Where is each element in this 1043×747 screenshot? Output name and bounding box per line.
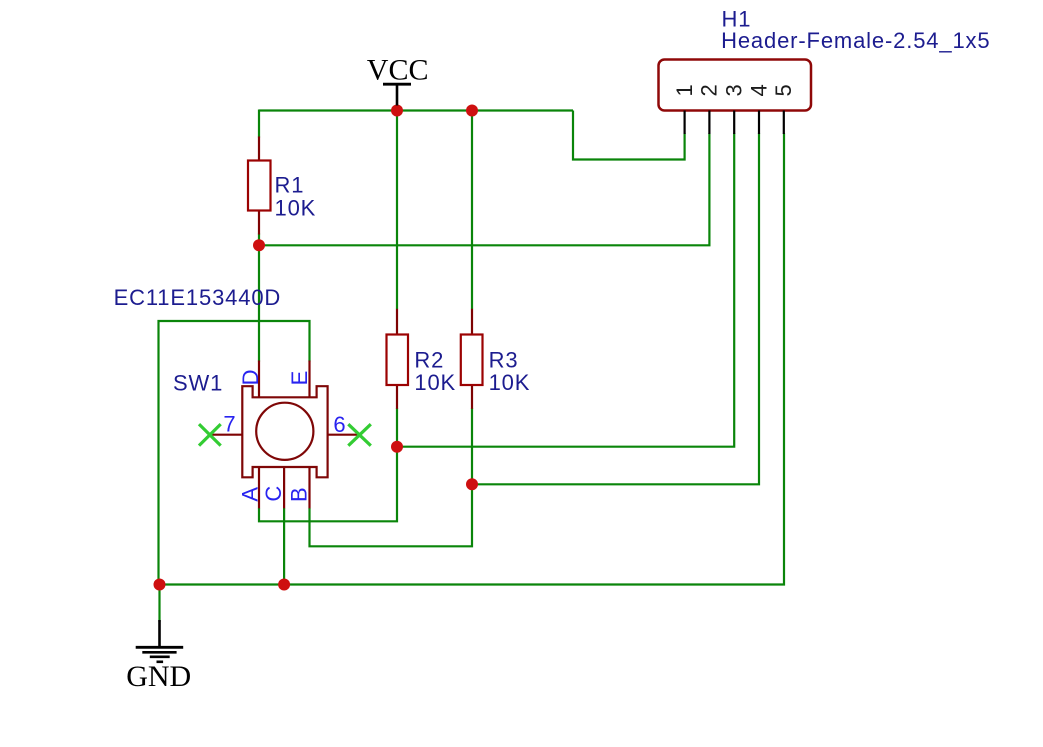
rotary encoder SW1 body <box>242 386 327 477</box>
svg-text:4: 4 <box>746 84 771 96</box>
svg-text:10K: 10K <box>489 370 531 395</box>
svg-text:R3: R3 <box>489 348 519 373</box>
power flag VCC <box>383 84 411 105</box>
junction R3 bottom node <box>466 478 478 490</box>
svg-text:1: 1 <box>672 84 697 96</box>
svg-text:D: D <box>238 370 263 386</box>
wire pin2 to R1 bottom <box>259 133 709 245</box>
wire R1 top <box>258 110 260 138</box>
no-connect X pin 7 <box>199 424 221 446</box>
ground GND <box>136 620 184 662</box>
pin A <box>258 468 260 509</box>
svg-text:3: 3 <box>722 84 747 96</box>
pin 5 stub <box>783 111 785 135</box>
resistor R2 <box>387 309 409 409</box>
svg-text:GND: GND <box>126 660 191 693</box>
resistor R3 <box>461 309 483 409</box>
wire R3 top <box>471 111 473 310</box>
junction VCC-R3 <box>466 105 478 117</box>
wire VCC rail <box>259 109 573 111</box>
encoder shaft circle <box>256 403 313 460</box>
no-connect X pin 6 <box>348 424 371 446</box>
svg-text:R1: R1 <box>275 173 305 198</box>
svg-text:B: B <box>286 487 311 502</box>
junction VCC-R2 <box>391 105 403 117</box>
svg-text:VCC: VCC <box>367 53 429 86</box>
pin B <box>308 468 310 509</box>
connector H1 body <box>659 60 812 111</box>
svg-text:6: 6 <box>333 412 345 437</box>
wire R3 bottom to pin 4 <box>472 133 759 484</box>
svg-text:A: A <box>237 487 262 502</box>
pin 7 <box>211 434 243 436</box>
wire pin E loop to GND <box>159 321 310 585</box>
svg-text:SW1: SW1 <box>173 370 223 395</box>
wire R2 bottom to pin 3 <box>397 133 734 447</box>
wire pin1 net <box>573 111 685 160</box>
wire R1 bottom to pin D <box>258 234 260 362</box>
pin C <box>283 468 285 509</box>
svg-text:Header-Female-2.54_1x5: Header-Female-2.54_1x5 <box>721 28 990 53</box>
svg-text:R2: R2 <box>414 348 444 373</box>
wire pin B net <box>310 484 473 546</box>
svg-text:EC11E153440D: EC11E153440D <box>114 285 282 310</box>
junction R2 bottom node <box>391 441 403 453</box>
svg-text:10K: 10K <box>275 195 317 220</box>
wire GND rail to pin 5 <box>160 133 785 584</box>
svg-text:7: 7 <box>223 411 235 436</box>
pin 2 stub <box>708 111 710 135</box>
pin E <box>308 361 310 397</box>
svg-text:C: C <box>261 486 286 502</box>
pin D <box>258 361 260 397</box>
junction R1 bottom node <box>253 239 265 251</box>
resistor R1 <box>248 137 271 235</box>
svg-text:5: 5 <box>771 84 796 96</box>
wire GND stem green <box>158 585 160 623</box>
svg-text:E: E <box>287 371 312 386</box>
pin 6 <box>328 434 360 436</box>
junction GND left <box>154 579 166 591</box>
pin 1 stub <box>683 111 685 135</box>
svg-text:2: 2 <box>697 84 722 96</box>
H1 pin stubs <box>685 111 784 135</box>
wire pin A net <box>259 447 397 522</box>
junction pin C GND rail <box>278 579 290 591</box>
wire pin C net <box>283 508 285 585</box>
pin 3 stub <box>733 111 735 135</box>
wire R2 top <box>396 111 398 310</box>
svg-text:10K: 10K <box>414 370 456 395</box>
pin 4 stub <box>758 111 760 135</box>
